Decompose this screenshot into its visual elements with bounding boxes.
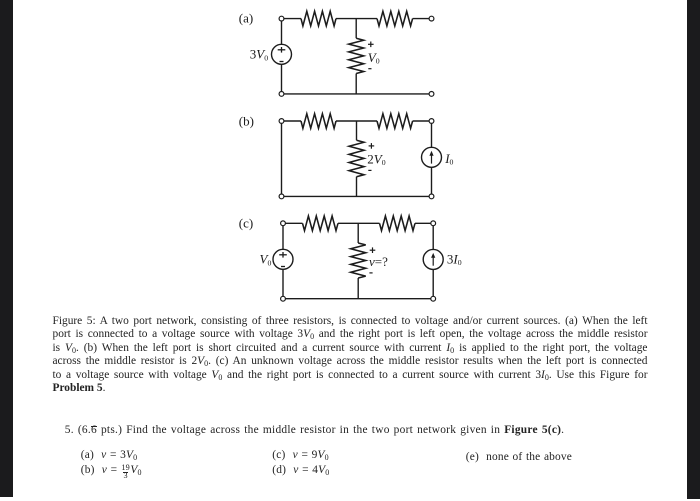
svg-text:(c): (c) — [239, 216, 253, 231]
svg-text:V0: V0 — [368, 50, 380, 66]
svg-text:3I0: 3I0 — [447, 251, 462, 267]
svg-text:2V0: 2V0 — [367, 152, 385, 168]
svg-text:V0: V0 — [260, 252, 272, 268]
svg-text:v=?: v=? — [369, 254, 388, 269]
svg-text:(a): (a) — [239, 10, 253, 25]
svg-text:(b): (b) — [239, 113, 254, 128]
svg-text:I0: I0 — [444, 151, 453, 167]
svg-text:3V0: 3V0 — [250, 47, 268, 63]
